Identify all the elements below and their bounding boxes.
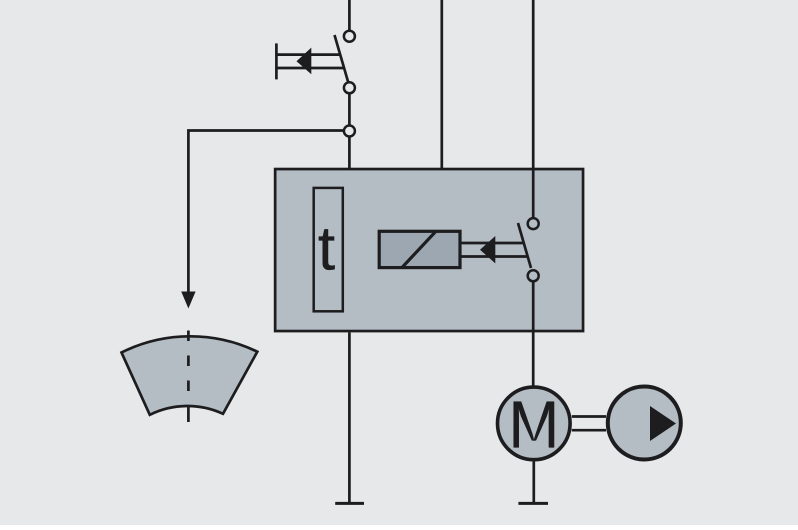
svg-text:t: t bbox=[318, 215, 335, 284]
